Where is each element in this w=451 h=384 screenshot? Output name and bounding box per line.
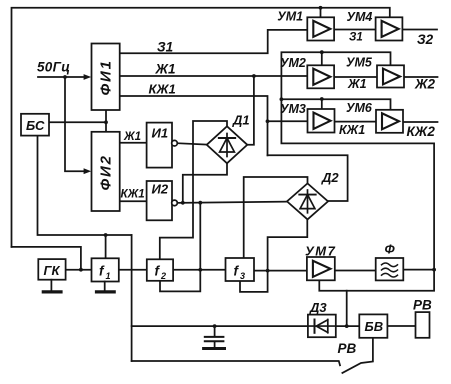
block UM7 with amp triangle (307, 257, 335, 280)
svg-text:РВ: РВ (413, 298, 432, 313)
wire: UM1 to UM4 (Z1) (334, 29, 376, 31)
wire: UM3 to UM6 (KZh1) (335, 121, 377, 123)
svg-text:2: 2 (160, 271, 166, 281)
svg-text:Ж1: Ж1 (123, 131, 141, 143)
svg-text:УМ1: УМ1 (277, 9, 303, 23)
wire: f1 to f2 (119, 269, 147, 271)
wire: f3 bottom loop up through node to D2 bottom elbow (240, 220, 307, 292)
node: dot on f3-UM7 wire (266, 269, 270, 273)
wire: stub from top rail into UM1 top (320, 8, 322, 17)
block UM1 with amp triangle (307, 17, 334, 40)
svg-text:И2: И2 (152, 182, 169, 197)
bubble: I2 output circle (172, 200, 178, 206)
svg-text:Ж2: Ж2 (414, 77, 436, 92)
wire: row3 rail from bus to UM6 top (281, 99, 390, 110)
node: dot BS wire / connector (104, 120, 108, 124)
wire: 50Hz branch down into FI2 (65, 77, 85, 171)
wire: FI1 bottom to FI2 top connector (105, 110, 107, 132)
wire: D2 top to f3 top (244, 177, 308, 258)
wire: top feed rail from left bus to UM4 (12, 8, 390, 247)
svg-text:УМ2: УМ2 (280, 56, 306, 70)
svg-text:ФИ1: ФИ1 (98, 59, 115, 95)
block BS (21, 114, 49, 136)
wire: FI2 to I2 (KZh1) (120, 200, 147, 202)
wire: D2 right vertex up and left to KZh1 vertical (268, 155, 348, 201)
svg-text:БС: БС (26, 118, 45, 133)
svg-text:Ж1: Ж1 (347, 77, 367, 91)
block UM3 with amp triangle (308, 109, 335, 133)
node: dot F output / right vertical (432, 268, 436, 272)
wire: FI2 to I1 (Zh1) (120, 142, 147, 144)
wire: GK to f1 (66, 269, 92, 271)
svg-text:РВ: РВ (338, 341, 357, 356)
wire: D1 bottom link down-left to I2 output wire (183, 163, 227, 202)
wire: KZh1 branch into UM3 input (268, 120, 308, 122)
wire: link f2 node up to I2 output wire (199, 203, 201, 270)
svg-text:УМ3: УМ3 (280, 102, 306, 116)
node: dot Zh1 / D1-right link (252, 74, 256, 78)
node: dot capacitor tap (213, 324, 217, 328)
wire: Zh1 from FI1 into UM2 input (120, 75, 308, 77)
wire: D1 right vertex up to Zh1 line (247, 76, 254, 145)
block F filter with waves (376, 258, 404, 280)
ground under GK (50, 280, 52, 291)
block UM4 with amp triangle (376, 17, 403, 40)
node: dot 50Hz split (63, 75, 67, 79)
wire: UM7 to F filter (335, 270, 376, 272)
wire: f2 bottom loop to its output node (160, 270, 200, 292)
wire: feed bus row2 rail, down left side of UM2/UM3, row3 bottom rail, right vertical, to UM7 bottom (281, 52, 434, 291)
node: dot GK-f1 wire / left bus (79, 268, 83, 272)
node: dot top rail / UM1 stub (319, 6, 323, 10)
svg-text:ГК: ГК (44, 263, 61, 278)
block I2 (147, 181, 172, 220)
wire: D1 top to f2 top (160, 121, 227, 259)
svg-text:УМ4: УМ4 (347, 10, 373, 24)
wire: UM4 output Z2 (402, 29, 437, 31)
wire: vertical from BS line down to bottom switch line (131, 235, 133, 361)
block I1 (147, 123, 172, 168)
block FI2 (92, 132, 120, 211)
wire: bottom line to switch contact (132, 361, 340, 365)
node: dot row2 rail / UM2 stub (320, 50, 324, 54)
wire: BV to RV (387, 325, 415, 327)
block f3 (226, 258, 255, 281)
node: dot KZh1 vertical / UM3 input (266, 119, 270, 123)
wire: KZh1 from FI1, corner down to D2 link level (120, 96, 268, 155)
svg-text:УМ6: УМ6 (346, 101, 373, 115)
wire: stub row2 rail into UM2 top (321, 52, 323, 65)
svg-text:З1: З1 (157, 40, 173, 55)
block UM6 with amp triangle (376, 110, 403, 133)
wire: I2 output to D2 left vertex (177, 202, 287, 203)
svg-text:Д2: Д2 (321, 170, 339, 185)
wire: UM5 output Zh2 (404, 76, 438, 78)
node: dot I2 wire / f2 link (198, 201, 202, 205)
bubble: I1 output circle (172, 140, 178, 146)
block UM5 with amp triangle (377, 65, 404, 87)
svg-text:Д1: Д1 (232, 113, 250, 128)
wire: BS to FI1/FI2 connector (49, 121, 106, 123)
svg-text:И1: И1 (152, 126, 169, 141)
svg-text:1: 1 (106, 271, 111, 281)
block GK (38, 259, 65, 280)
svg-text:ФИ2: ФИ2 (98, 154, 115, 190)
node: dot bus / row3 rail (280, 97, 284, 101)
wire: left bus bottom elbow to GK-f1 wire (12, 247, 81, 270)
block UM2 with amp triangle (307, 65, 334, 88)
svg-text:Ф: Ф (385, 242, 396, 257)
wire: F output to right vertical (403, 269, 434, 271)
ground under f1 (104, 282, 106, 292)
svg-text:УМ5: УМ5 (346, 55, 373, 69)
svg-text:50Гц: 50Гц (37, 60, 70, 75)
wire: I1 output to D1 left vertex (177, 143, 207, 144)
node: dot BS line / f1 top branch (104, 233, 108, 237)
svg-text:3: 3 (240, 271, 245, 281)
wire: UM2 to UM5 (Zh1) (334, 76, 377, 78)
wire: UM6 output KZh2 (403, 121, 438, 123)
wire: branch from UM7-bottom line down to D3-BV wire (346, 291, 348, 326)
svg-text:З2: З2 (417, 32, 434, 47)
wire: stub row3 rail into UM3 top (321, 99, 323, 109)
svg-text:КЖ2: КЖ2 (407, 124, 436, 139)
block f1 (92, 258, 119, 281)
block BV (359, 314, 387, 337)
diamond D1 with diode (207, 126, 248, 163)
svg-text:КЖ1: КЖ1 (339, 123, 365, 137)
node: dot I2 wire / D1 bottom link (181, 201, 185, 205)
svg-text:Ж1: Ж1 (155, 62, 176, 77)
node: dot D3-BV wire / branch (345, 324, 349, 328)
wire: 50Hz input into FI1 (38, 76, 85, 78)
svg-text:КЖ1: КЖ1 (121, 189, 145, 201)
wire: branch from BS line into f1 top (105, 235, 107, 258)
block RV (416, 312, 430, 338)
svg-text:Д3: Д3 (309, 300, 327, 315)
wire: f2 to f3 (173, 269, 225, 271)
arrow: into FI2 (84, 168, 92, 174)
block D3 with diode symbol (308, 315, 336, 338)
wire: long line to D3 (from BS vertical) (132, 325, 360, 327)
node: dot row3 rail / UM3 stub (320, 97, 324, 101)
svg-text:УМ7: УМ7 (305, 244, 336, 259)
arrow: into FI1 (84, 74, 92, 80)
svg-text:КЖ1: КЖ1 (149, 82, 176, 97)
wire: BS bottom down and right (38, 136, 132, 235)
wire: f3 to UM7 (254, 270, 307, 272)
block f2 (147, 259, 173, 281)
node: dot on f2-f3 wire (198, 268, 202, 272)
wire: Z1 from FI1 up into UM1 input (120, 30, 308, 53)
switch RV: blade and link up to BV bottom (342, 338, 373, 373)
capacitor to ground: stem, plates, ground bar (214, 326, 216, 336)
block FI1 (92, 44, 120, 111)
svg-text:БВ: БВ (365, 319, 384, 334)
diamond D2 with diode (287, 183, 328, 219)
svg-text:З1: З1 (349, 31, 363, 43)
